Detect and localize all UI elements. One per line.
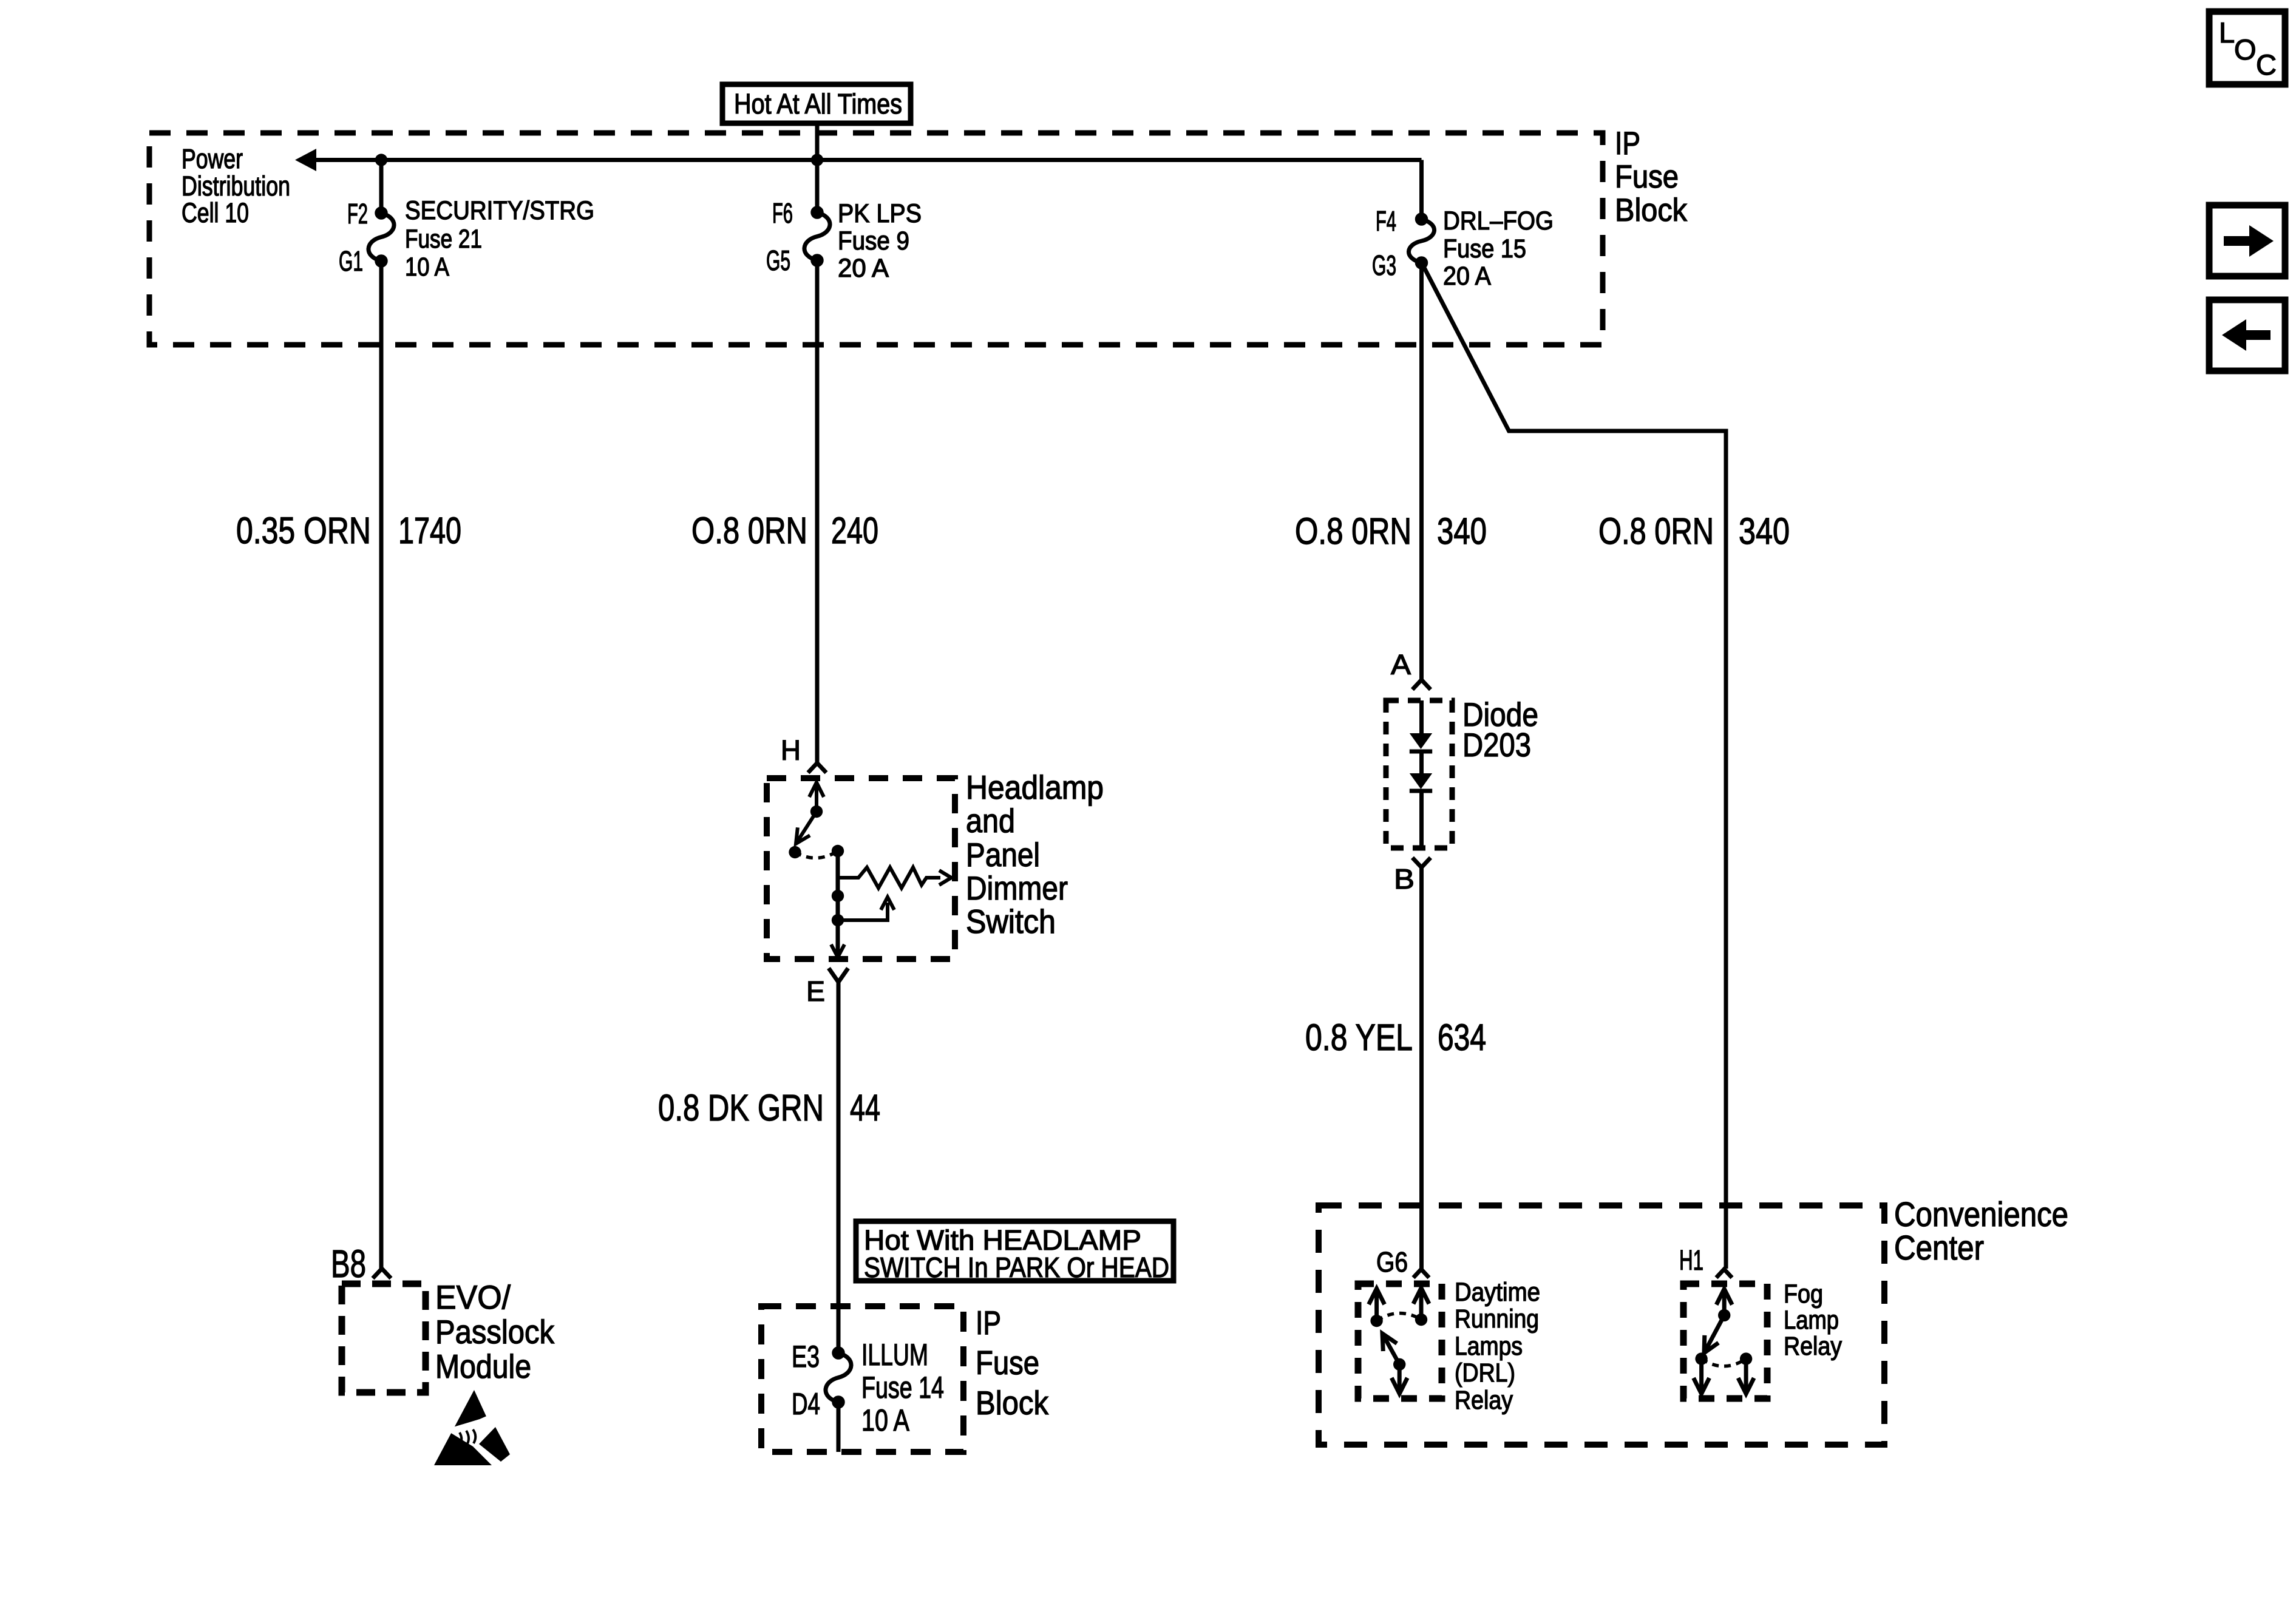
svg-text:SECURITY/STRG: SECURITY/STRG [405, 196, 594, 225]
svg-text:Dimmer: Dimmer [966, 869, 1068, 907]
fog relay top node [1718, 1309, 1730, 1321]
fog relay right node [1740, 1352, 1752, 1364]
fog relay dashed travel arc [1702, 1359, 1747, 1366]
DRL relay output arrow [1391, 1364, 1407, 1394]
DRL relay armature [1382, 1334, 1399, 1364]
wire 1740 0.35 ORN (G1 to B8) [379, 261, 384, 1269]
svg-text:F6: F6 [772, 197, 793, 229]
wire: bus to fuse F6 [815, 160, 820, 213]
svg-text:Running: Running [1455, 1304, 1539, 1334]
wire 240 O.8 0RN (G5 to H) [815, 260, 820, 763]
label fuse 9 [838, 199, 922, 283]
connector H [808, 763, 826, 773]
label Daytime Running Lamps (DRL) Relay [1455, 1278, 1540, 1415]
svg-text:Block: Block [976, 1384, 1048, 1422]
svg-text:E: E [806, 975, 825, 1007]
label EVO/Passlock Module [435, 1278, 554, 1385]
svg-text:O.8 0RN: O.8 0RN [1598, 510, 1714, 552]
svg-text:DRL–FOG: DRL–FOG [1443, 206, 1554, 236]
label Headlamp and Panel Dimmer Switch [966, 768, 1104, 940]
label IP Fuse Block (bottom) [976, 1304, 1048, 1422]
IP Fuse Block (bottom) dashed box [761, 1306, 963, 1452]
wire: stub from Hot At All Times into fuse block [815, 124, 820, 160]
switch pivot node [789, 846, 801, 858]
svg-text:20 A: 20 A [1443, 262, 1491, 291]
switch node H side [810, 805, 823, 818]
fog relay left output arrow [1694, 1359, 1710, 1394]
label Fog Lamp Relay [1784, 1280, 1842, 1361]
svg-text:B8: B8 [331, 1242, 366, 1286]
svg-text:Passlock: Passlock [435, 1313, 554, 1351]
fog relay left node [1695, 1352, 1707, 1364]
svg-text:Fuse: Fuse [976, 1344, 1039, 1381]
svg-text:G3: G3 [1372, 249, 1396, 281]
label Convenience Center [1894, 1195, 2068, 1267]
IP Fuse Block (top) dashed box [149, 133, 1603, 345]
fuse 21 SECURITY/STRG (F2-G1) [369, 207, 394, 267]
wire 44 0.8 DK GRN (E to E3) [837, 980, 841, 1353]
svg-text:Daytime: Daytime [1455, 1278, 1540, 1307]
fuse 15 DRL-FOG (F4-G3) [1408, 213, 1434, 269]
wire: bus to fuse F2 [379, 160, 384, 214]
connector B [1413, 858, 1431, 867]
svg-text:SWITCH In PARK Or HEAD: SWITCH In PARK Or HEAD [864, 1252, 1169, 1283]
svg-text:G1: G1 [339, 245, 363, 277]
label fuse 14 [861, 1338, 944, 1437]
svg-text:Cell 10: Cell 10 [182, 197, 249, 228]
switch dashed travel arc [795, 851, 838, 858]
dimmer tap node [832, 890, 844, 902]
svg-text:634: 634 [1438, 1017, 1486, 1058]
wire: bus corner down to fuse F4 [1419, 160, 1424, 220]
rheostat (panel dimmer) resistor [838, 867, 940, 888]
diode D203 element [1410, 700, 1432, 848]
Diode D203 dashed box [1386, 700, 1452, 848]
forward navigation arrow box [2209, 205, 2285, 276]
fuse 9 PK LPS (F6-G5) [804, 206, 830, 266]
svg-text:1740: 1740 [398, 510, 461, 551]
fog relay feed contact arrow [1716, 1289, 1732, 1315]
svg-text:ILLUM: ILLUM [861, 1338, 928, 1372]
svg-text:Module: Module [435, 1347, 531, 1385]
fog relay right output arrow [1738, 1359, 1754, 1394]
DRL relay common node [1393, 1358, 1405, 1371]
Daytime Running Lamps (DRL) Relay dashed box [1358, 1284, 1442, 1398]
DRL relay coil-side contact arrow [1369, 1289, 1385, 1321]
svg-text:Lamps: Lamps [1455, 1332, 1523, 1361]
svg-text:Relay: Relay [1455, 1386, 1513, 1415]
switch output node [832, 845, 844, 857]
svg-text:Center: Center [1894, 1229, 1984, 1267]
back navigation arrow box [2209, 300, 2285, 371]
label fuse 21 [405, 196, 594, 282]
label Hot With HEADLAMP SWITCH In PARK Or HEAD [864, 1224, 1169, 1283]
svg-text:F4: F4 [1376, 205, 1396, 237]
svg-text:0.35 ORN: 0.35 ORN [236, 510, 371, 551]
ESD sensitive device symbol [434, 1390, 514, 1466]
svg-text:A: A [1391, 649, 1411, 680]
wire: power feed bus from Hot At All Times [305, 158, 1422, 162]
DRL relay feed contact arrow [1413, 1288, 1429, 1320]
connector A [1413, 680, 1431, 690]
Hot With HEADLAMP SWITCH box [856, 1221, 1173, 1281]
wire: switch output leg [836, 851, 840, 954]
svg-text:Headlamp: Headlamp [966, 768, 1104, 806]
svg-text:340: 340 [1437, 510, 1487, 552]
connector G6 [1413, 1269, 1429, 1278]
switch contact arrow (headlamp feed) [809, 782, 824, 812]
svg-text:Fuse 9: Fuse 9 [838, 226, 909, 256]
DRL relay dashed travel arc [1377, 1313, 1421, 1321]
svg-text:O.8 0RN: O.8 0RN [1295, 510, 1411, 552]
svg-text:20 A: 20 A [838, 254, 889, 283]
svg-text:340: 340 [1739, 510, 1790, 552]
svg-text:Switch: Switch [966, 903, 1056, 940]
svg-text:Hot At All Times: Hot At All Times [734, 88, 902, 120]
wire 340 O.8 0RN (G3 to H1) [1422, 263, 1726, 1269]
connector E [829, 968, 848, 982]
Fog Lamp Relay dashed box [1683, 1284, 1767, 1398]
connector B8 [373, 1269, 391, 1278]
svg-text:L: L [2219, 16, 2235, 49]
LOC legend box [2209, 12, 2285, 84]
svg-text:D203: D203 [1462, 726, 1531, 764]
junction node on bus at F6 branch [811, 154, 823, 166]
svg-text:Block: Block [1615, 192, 1687, 228]
svg-text:Fog: Fog [1784, 1280, 1823, 1309]
svg-text:E3: E3 [792, 1340, 820, 1374]
svg-text:44: 44 [850, 1087, 880, 1128]
junction node on bus at F2 branch [375, 154, 387, 166]
svg-text:0.8 YEL: 0.8 YEL [1305, 1017, 1413, 1058]
Headlamp and Panel Dimmer Switch dashed box [767, 778, 955, 959]
rheostat output arrowhead [939, 870, 951, 885]
svg-text:PK LPS: PK LPS [838, 199, 922, 228]
label Diode D203 [1462, 696, 1538, 764]
svg-text:Fuse 21: Fuse 21 [405, 225, 482, 254]
label Power Distribution Cell 10 [182, 143, 290, 228]
label IP Fuse Block (top) [1615, 126, 1687, 228]
dimmer junction node [832, 914, 844, 926]
wire 634 0.8 YEL (B to G6) [1419, 867, 1424, 1269]
svg-text:C: C [2256, 49, 2277, 81]
fuse 14 ILLUM (E3-D4) [826, 1347, 851, 1408]
svg-text:Fuse 14: Fuse 14 [861, 1371, 944, 1405]
wire: D4 to fuse block edge [837, 1402, 841, 1452]
svg-text:EVO/: EVO/ [435, 1278, 511, 1316]
switch output arrowhead to E [831, 944, 844, 957]
svg-text:H: H [781, 734, 801, 766]
svg-text:G5: G5 [766, 245, 790, 276]
wire 340 O.8 0RN (G3 to A) [1419, 263, 1424, 680]
svg-text:Relay: Relay [1784, 1332, 1842, 1361]
connector H1 [1716, 1269, 1732, 1278]
svg-text:H1: H1 [1679, 1244, 1703, 1276]
svg-text:10 A: 10 A [405, 253, 449, 282]
DRL relay right node [1415, 1314, 1427, 1326]
svg-text:D4: D4 [792, 1387, 820, 1421]
EVO/Passlock Module dashed box [342, 1284, 426, 1392]
svg-text:B: B [1394, 863, 1415, 895]
svg-text:O: O [2234, 33, 2257, 66]
svg-text:O.8 0RN: O.8 0RN [691, 510, 807, 551]
svg-text:Lamp: Lamp [1784, 1306, 1839, 1335]
svg-text:G6: G6 [1376, 1246, 1408, 1278]
label fuse 15 [1443, 206, 1554, 291]
DRL relay left node [1370, 1315, 1382, 1327]
svg-text:IP: IP [976, 1304, 1001, 1341]
svg-text:(DRL): (DRL) [1455, 1358, 1515, 1388]
svg-text:Fuse 15: Fuse 15 [1443, 234, 1526, 263]
svg-text:Panel: Panel [966, 836, 1040, 873]
arrowhead to Power Distribution Cell 10 [295, 149, 316, 171]
switch wiper arm [796, 812, 817, 844]
svg-text:F2: F2 [347, 198, 368, 229]
Convenience Center dashed box [1319, 1205, 1884, 1445]
svg-text:10 A: 10 A [861, 1403, 910, 1437]
svg-text:IP: IP [1615, 126, 1640, 161]
svg-text:240: 240 [831, 510, 878, 551]
Hot At All Times box [722, 84, 911, 123]
svg-text:and: and [966, 802, 1015, 839]
rheostat wiper arrow [838, 897, 894, 920]
svg-text:Power: Power [182, 143, 243, 174]
svg-text:Fuse: Fuse [1615, 159, 1679, 195]
svg-text:0.8 DK GRN: 0.8 DK GRN [658, 1087, 824, 1128]
fog relay armature [1704, 1315, 1724, 1353]
